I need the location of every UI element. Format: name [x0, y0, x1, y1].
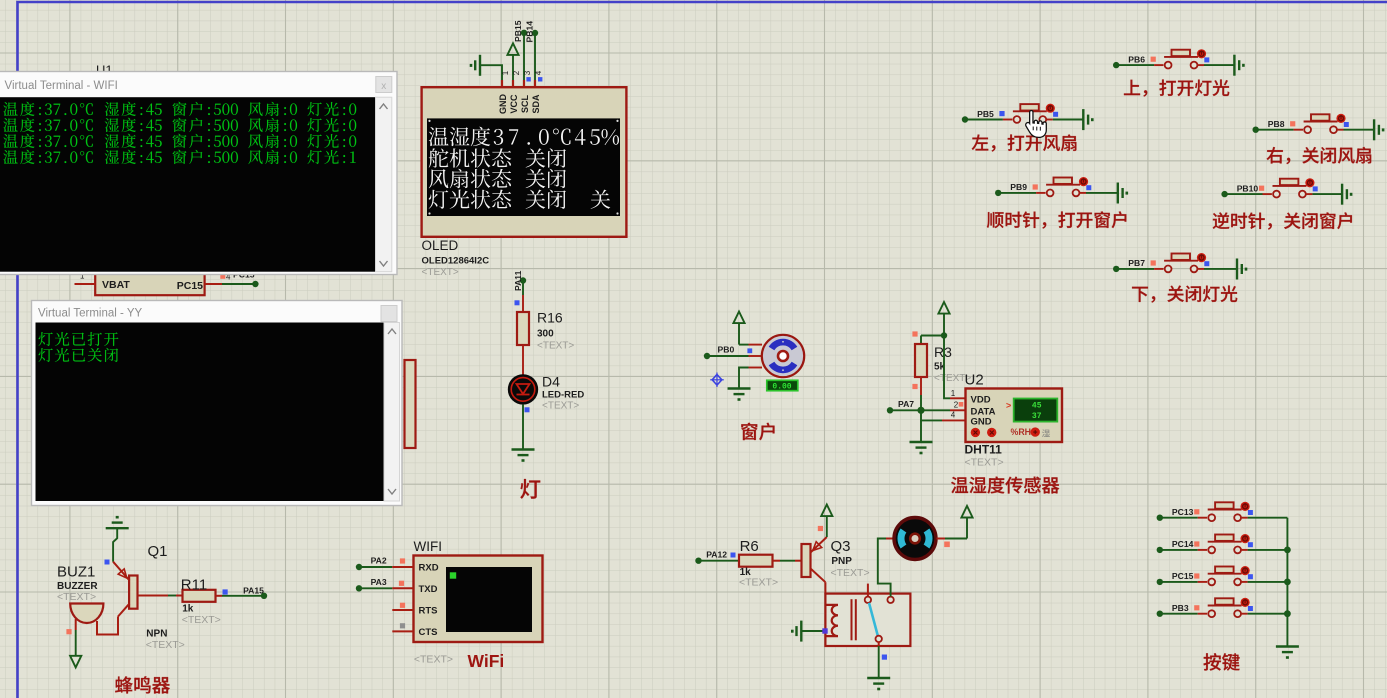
button toggle	[1241, 598, 1250, 607]
CTS stub	[392, 630, 413, 632]
label 温湿度传感器	[951, 477, 968, 493]
node	[941, 332, 947, 338]
label 逆时针，关闭窗户	[1213, 212, 1230, 229]
svg-text:4: 4	[951, 411, 956, 420]
node PC15	[252, 281, 258, 287]
svg-text:<TEXT>: <TEXT>	[146, 639, 185, 651]
wire	[1197, 64, 1204, 66]
svg-text:BUZ1: BUZ1	[57, 564, 95, 581]
power arrow (OLED VCC)	[507, 43, 518, 55]
terminal text	[39, 332, 53, 346]
DHT display	[1014, 399, 1058, 422]
label 按键	[1203, 653, 1220, 670]
button toggle	[1336, 114, 1345, 123]
wire	[359, 566, 392, 568]
svg-text:Q1: Q1	[148, 543, 168, 560]
svg-text:PC15: PC15	[1172, 571, 1194, 581]
svg-text:Q3: Q3	[831, 538, 851, 555]
power arrow (fan)	[961, 506, 972, 518]
svg-text:<TEXT>: <TEXT>	[422, 267, 459, 278]
svg-text:<TEXT>: <TEXT>	[414, 654, 453, 666]
wire	[1256, 129, 1294, 131]
button toggle	[1305, 178, 1314, 187]
wire PB14	[534, 33, 536, 87]
ground (OLED pin1)	[479, 55, 481, 76]
svg-text:PC15: PC15	[177, 280, 203, 292]
svg-text:PA7: PA7	[898, 399, 914, 409]
wire GND pin	[921, 410, 942, 420]
ground	[1373, 119, 1375, 140]
wire	[1046, 119, 1053, 121]
svg-text:PB5: PB5	[977, 109, 994, 119]
wire	[480, 65, 502, 87]
svg-text:GND: GND	[498, 94, 508, 115]
svg-text:4: 4	[534, 70, 543, 75]
svg-text:VBAT: VBAT	[102, 279, 130, 291]
junction	[1284, 579, 1291, 586]
svg-text:<TEXT>: <TEXT>	[182, 614, 221, 626]
push button PC13 contacts	[1208, 514, 1215, 521]
svg-text:R16: R16	[537, 310, 563, 326]
servo motor (window)	[762, 335, 804, 377]
junction	[1284, 610, 1291, 617]
svg-text:WiFi: WiFi	[468, 651, 505, 671]
wire VDD	[944, 336, 950, 399]
svg-text:1k: 1k	[182, 604, 194, 615]
relay contacts	[867, 584, 869, 597]
node PB5	[962, 116, 968, 122]
svg-text:<TEXT>: <TEXT>	[542, 401, 579, 412]
node PA12	[695, 558, 701, 564]
svg-text:SDA: SDA	[531, 94, 541, 114]
wire	[522, 281, 524, 296]
wire (relay NO to fan)	[878, 539, 891, 597]
wire	[216, 595, 223, 597]
wire	[359, 587, 392, 589]
svg-text:PA15: PA15	[243, 586, 264, 596]
push button PB8 contacts	[1304, 126, 1311, 133]
svg-text:VCC: VCC	[509, 94, 519, 114]
svg-text:PNP: PNP	[831, 556, 852, 567]
svg-text:<TEXT>: <TEXT>	[831, 567, 870, 579]
wire	[773, 560, 781, 562]
svg-text:x: x	[381, 81, 386, 92]
button toggle	[1241, 502, 1250, 511]
svg-text:1: 1	[951, 389, 956, 398]
ground (buzzer top)	[106, 527, 129, 529]
relay lever	[869, 603, 878, 636]
wire (relay common to ground)	[878, 646, 880, 678]
wire	[699, 560, 740, 562]
button toggle	[1046, 104, 1055, 113]
svg-text:PC13: PC13	[1172, 507, 1194, 517]
fan motor	[894, 518, 936, 560]
OLED pin stubs	[501, 80, 503, 88]
svg-text:<TEXT>: <TEXT>	[57, 591, 96, 603]
component fragment	[405, 360, 416, 448]
svg-text:R6: R6	[740, 538, 759, 555]
DHT buttons	[971, 428, 980, 437]
label 右，关闭风扇	[1267, 147, 1283, 164]
ground	[1236, 259, 1238, 280]
wire	[1241, 581, 1248, 583]
svg-text:PB9: PB9	[1010, 182, 1027, 192]
svg-text:PB8: PB8	[1268, 119, 1285, 129]
svg-text:0.00: 0.00	[772, 383, 791, 392]
label 下，关闭灯光	[1132, 287, 1148, 302]
node PA2	[356, 564, 362, 570]
OLED display U3	[422, 87, 627, 237]
ground	[910, 441, 933, 443]
OLED screen	[427, 118, 620, 216]
svg-text:PB15: PB15	[513, 20, 523, 42]
push button PB3 contacts	[1208, 610, 1215, 617]
svg-text:PB14: PB14	[524, 21, 534, 43]
node PA3	[356, 585, 362, 591]
wire	[75, 630, 77, 656]
wire	[1160, 613, 1198, 615]
push button PB9 contacts	[1047, 190, 1054, 197]
wire	[1241, 613, 1248, 615]
node PC15	[1157, 579, 1163, 585]
svg-text:VDD: VDD	[971, 395, 991, 406]
svg-text:PB10: PB10	[1237, 183, 1259, 193]
button toggle	[1197, 49, 1206, 58]
svg-text:PB7: PB7	[1128, 258, 1145, 268]
svg-text:Virtual Terminal - WIFI: Virtual Terminal - WIFI	[5, 80, 118, 92]
wire	[739, 344, 749, 346]
ground	[1276, 645, 1299, 647]
wire	[1160, 549, 1198, 551]
node PB15	[521, 30, 527, 36]
node PC14	[1157, 547, 1163, 553]
resistor R6	[739, 555, 773, 567]
svg-text:R11: R11	[181, 577, 207, 594]
svg-text:LED-RED: LED-RED	[542, 389, 584, 400]
svg-text:PB0: PB0	[718, 344, 735, 354]
servo angle display	[767, 380, 798, 390]
terminal text	[3, 102, 17, 116]
label 窗户	[741, 423, 757, 440]
svg-text:45: 45	[1032, 402, 1042, 411]
node PB0	[704, 353, 710, 359]
RTS stub	[392, 609, 413, 611]
label 顺时针，打开窗户	[987, 212, 1004, 228]
virtual terminal WIFI window	[0, 72, 397, 275]
power arrow (servo)	[733, 312, 744, 324]
virtual terminal YY window	[32, 301, 403, 506]
svg-text:RTS: RTS	[419, 606, 438, 617]
power arrow	[821, 505, 832, 517]
svg-text:NPN: NPN	[146, 629, 167, 640]
node PA11	[520, 277, 526, 283]
node PB14	[532, 30, 538, 36]
wire	[998, 192, 1036, 194]
push button PB6 contacts	[1165, 62, 1172, 69]
ground (relay coil)	[801, 630, 825, 632]
node PB10	[1221, 191, 1227, 197]
power down arrow	[70, 656, 81, 668]
svg-text:WIFI: WIFI	[414, 539, 443, 554]
buzzer leads	[75, 619, 77, 630]
wire	[1160, 517, 1198, 519]
svg-text:OLED12864I2C: OLED12864I2C	[422, 256, 490, 267]
button toggle	[1079, 177, 1088, 186]
button toggle	[1241, 566, 1250, 575]
svg-text:%RH: %RH	[1011, 427, 1032, 437]
node PA7	[887, 407, 893, 413]
pin 1 wire	[75, 283, 96, 285]
label 蜂鸣器	[115, 676, 133, 693]
wire	[1306, 193, 1313, 195]
OLED screen text	[429, 127, 449, 146]
resistor R3	[915, 344, 927, 377]
svg-text:>: >	[1006, 401, 1011, 411]
wire	[522, 345, 524, 376]
pin 4 wire	[205, 283, 222, 285]
wire	[1079, 192, 1086, 194]
scrollbar	[376, 97, 392, 272]
relay RL1	[825, 594, 910, 646]
ground	[728, 387, 751, 389]
collector lead	[811, 569, 826, 583]
origin marker	[712, 375, 722, 386]
svg-text:PA3: PA3	[371, 577, 387, 587]
wire	[1116, 64, 1154, 66]
svg-text:PA2: PA2	[371, 556, 387, 566]
svg-text:3: 3	[523, 70, 532, 75]
resistor R16	[517, 312, 529, 345]
base wire	[138, 595, 169, 597]
svg-text:D4: D4	[542, 374, 560, 390]
node PB9	[995, 190, 1001, 196]
ground	[867, 677, 890, 679]
mouse cursor	[1026, 111, 1047, 138]
svg-text:SCL: SCL	[520, 94, 530, 113]
wire	[1160, 581, 1198, 583]
svg-text:U2: U2	[965, 372, 984, 389]
bus wire	[1286, 518, 1288, 646]
svg-text:CTS: CTS	[419, 627, 438, 638]
svg-text:PA12: PA12	[706, 550, 727, 560]
ground	[512, 448, 535, 450]
svg-text:PA11: PA11	[513, 270, 523, 291]
button toggle	[1197, 253, 1206, 262]
svg-text:<TEXT>: <TEXT>	[739, 576, 778, 588]
wire	[1116, 268, 1154, 270]
wire	[222, 283, 255, 285]
label 灯	[520, 479, 540, 499]
svg-text:PB3: PB3	[1172, 603, 1189, 613]
push button PB5 contacts	[1014, 116, 1021, 123]
svg-text:2: 2	[954, 401, 959, 410]
svg-text:GND: GND	[971, 417, 992, 428]
svg-text:PB6: PB6	[1128, 54, 1145, 64]
wire PB0	[707, 355, 749, 357]
node PC13	[1157, 515, 1163, 521]
svg-text:TXD: TXD	[419, 584, 438, 595]
wire (fan to power)	[937, 538, 946, 540]
ground	[1341, 184, 1343, 205]
svg-text:2: 2	[512, 70, 521, 75]
svg-text:RXD: RXD	[419, 563, 439, 574]
relay core	[851, 599, 853, 640]
scrollbar	[384, 323, 400, 502]
svg-text:<TEXT>: <TEXT>	[965, 457, 1004, 469]
node PB8	[1253, 127, 1259, 133]
svg-text:PC14: PC14	[1172, 539, 1194, 549]
wire	[1241, 549, 1248, 551]
svg-text:Virtual Terminal - YY: Virtual Terminal - YY	[38, 308, 143, 320]
ground	[1233, 55, 1235, 76]
junction	[1284, 547, 1291, 554]
wire	[113, 528, 117, 562]
label 左，打开风扇	[972, 134, 989, 150]
svg-text:300: 300	[537, 328, 554, 339]
emitter lead	[811, 537, 827, 553]
wire to R3	[921, 335, 944, 337]
wire	[749, 367, 763, 369]
relay coil	[825, 605, 838, 636]
LED D4	[508, 374, 538, 404]
button toggle	[1241, 534, 1250, 543]
wire	[1225, 193, 1263, 195]
svg-text:<TEXT>: <TEXT>	[537, 341, 574, 352]
push button PB10 contacts	[1273, 191, 1280, 198]
node PB3	[1157, 611, 1163, 617]
svg-text:DHT11: DHT11	[965, 443, 1003, 457]
wire PA7/DATA	[890, 409, 950, 411]
node PB7	[1113, 266, 1119, 272]
ground	[1117, 183, 1119, 204]
svg-text:37: 37	[1032, 412, 1042, 421]
wire	[920, 377, 922, 395]
wire PB15	[523, 33, 525, 87]
node PA15	[261, 593, 267, 599]
ground	[1082, 109, 1084, 130]
svg-text:1: 1	[501, 70, 510, 75]
power arrow (DHT)	[938, 302, 949, 314]
wire	[1197, 268, 1204, 270]
push button PC15 contacts	[1208, 579, 1215, 586]
wire	[522, 405, 524, 449]
push button PC14 contacts	[1208, 547, 1215, 554]
svg-text:OLED: OLED	[422, 238, 459, 253]
wire	[1241, 517, 1248, 519]
resistor R11	[183, 590, 216, 602]
wire	[965, 119, 1003, 121]
node PB6	[1113, 62, 1119, 68]
junction	[917, 407, 924, 414]
wire	[1337, 129, 1344, 131]
label 上，打开灯光	[1124, 80, 1140, 95]
push button PB7 contacts	[1165, 266, 1172, 273]
